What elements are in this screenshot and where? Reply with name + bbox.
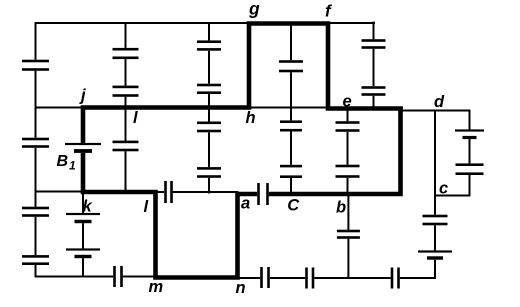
svg-text:l: l — [144, 198, 149, 216]
svg-text:a: a — [241, 194, 250, 212]
svg-text:h: h — [246, 109, 256, 127]
svg-text:f: f — [325, 1, 333, 20]
svg-text:C: C — [287, 196, 300, 214]
svg-text:l: l — [133, 109, 138, 127]
svg-text:m: m — [149, 278, 164, 296]
svg-text:d: d — [434, 93, 445, 111]
svg-text:b: b — [336, 198, 346, 216]
svg-text:e: e — [343, 92, 352, 110]
svg-text:n: n — [236, 279, 246, 297]
svg-text:g: g — [248, 0, 260, 18]
svg-text:k: k — [83, 197, 93, 215]
svg-text:1: 1 — [69, 159, 76, 173]
svg-text:B: B — [57, 153, 69, 170]
svg-text:c: c — [439, 180, 448, 198]
svg-text:j: j — [79, 86, 86, 104]
